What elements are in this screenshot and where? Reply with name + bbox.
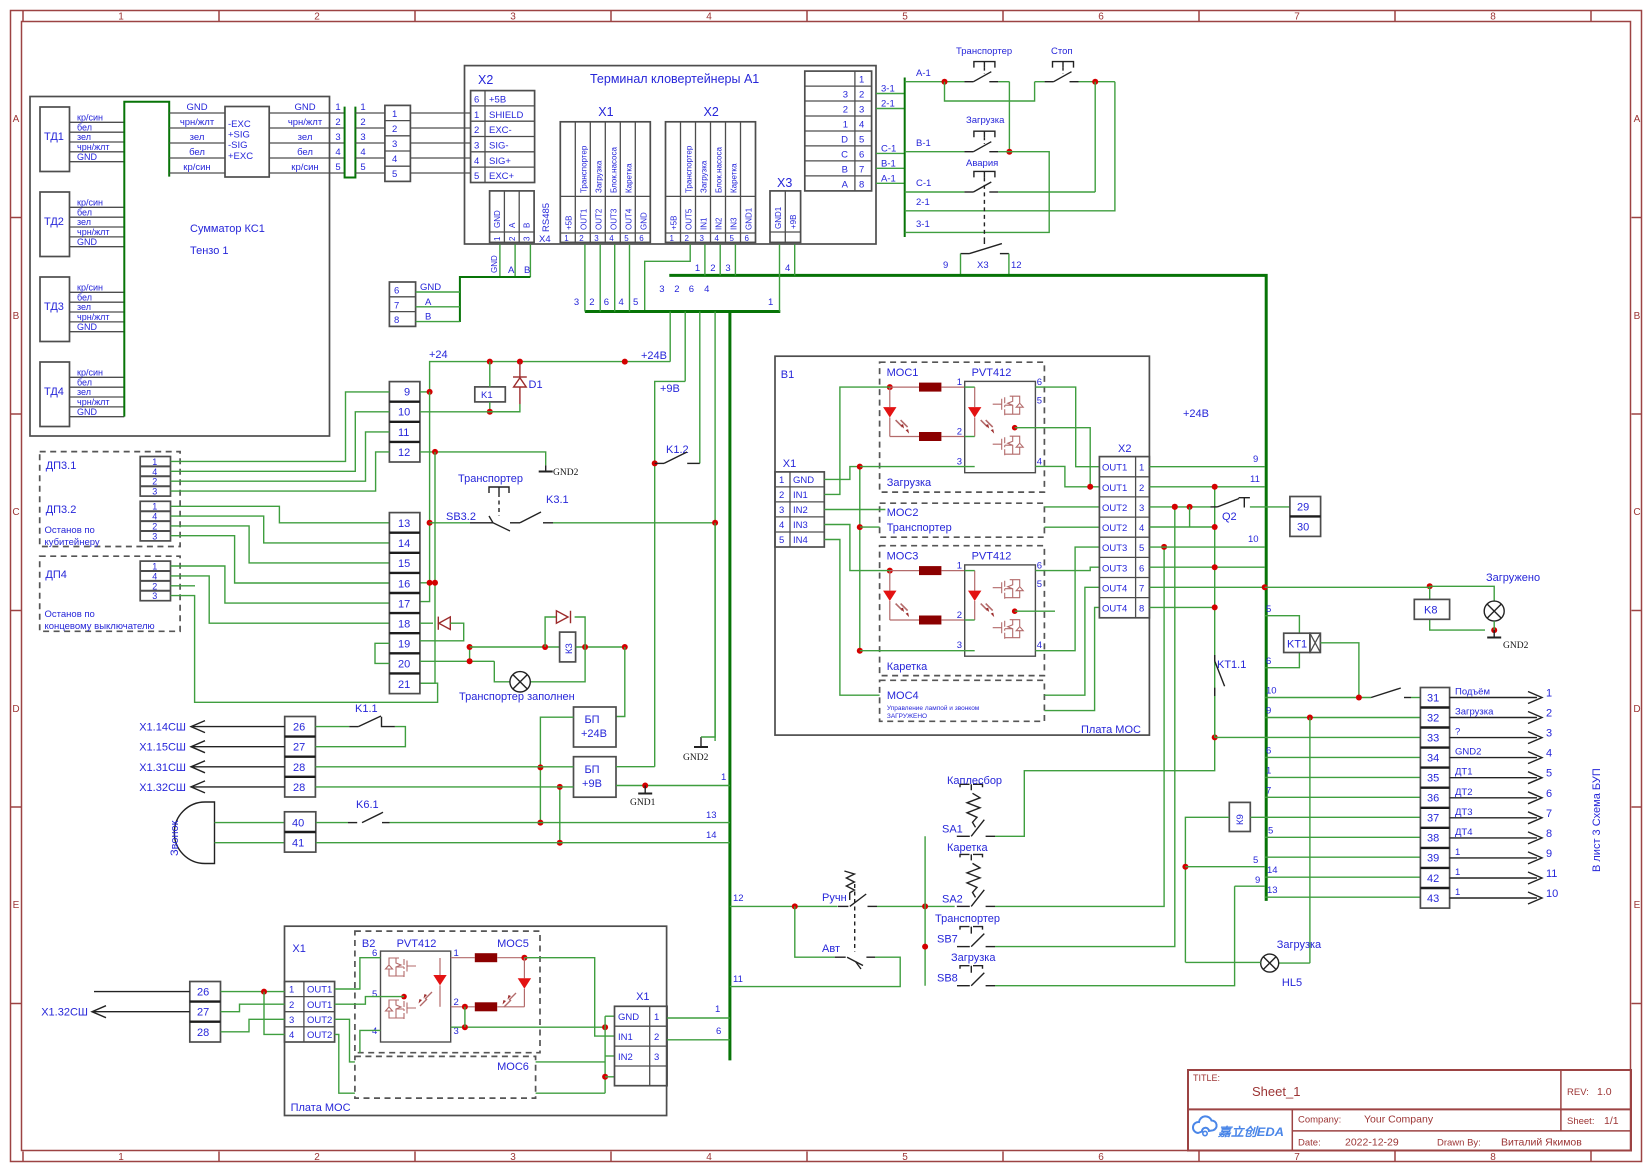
wire harness bus pair xyxy=(345,107,356,178)
wires MOC6 to X1 right xyxy=(536,1056,615,1093)
+24 net down to БП+24В xyxy=(616,647,625,717)
svg-text:Транспортер: Транспортер xyxy=(685,145,694,193)
svg-text:3: 3 xyxy=(700,234,705,243)
svg-text:6: 6 xyxy=(474,95,479,106)
svg-text:5: 5 xyxy=(730,234,735,243)
switch SA1 xyxy=(41,356,1603,1115)
svg-text:?: ? xyxy=(1455,727,1460,738)
switch Q2 xyxy=(1149,498,1290,527)
svg-text:1: 1 xyxy=(152,502,157,512)
ground GND2 mid xyxy=(683,523,715,763)
svg-text:6: 6 xyxy=(1098,12,1104,23)
svg-text:OUT1: OUT1 xyxy=(307,1000,332,1011)
svg-text:1: 1 xyxy=(118,1152,124,1163)
svg-text:-SIG: -SIG xyxy=(228,140,248,151)
connector 26-28 (bottom) xyxy=(190,982,221,1043)
svg-text:Управление лампой и звонком: Управление лампой и звонком xyxy=(887,704,980,712)
svg-text:15: 15 xyxy=(398,558,410,570)
svg-text:OUT1: OUT1 xyxy=(579,208,588,230)
svg-text:OUT4: OUT4 xyxy=(1102,604,1127,615)
svg-text:3: 3 xyxy=(335,132,340,143)
svg-text:3: 3 xyxy=(289,1015,294,1026)
svg-text:14: 14 xyxy=(398,538,410,550)
ground GND2 (near 12) xyxy=(539,465,579,478)
svg-text:11: 11 xyxy=(1546,868,1557,880)
svg-text:SB3.2: SB3.2 xyxy=(446,511,476,523)
svg-text:6: 6 xyxy=(1266,656,1271,667)
connector 29-30 xyxy=(1290,497,1321,537)
table X2 (B1 outputs) xyxy=(1099,443,1149,618)
svg-text:ЗАГРУЖЕНО: ЗАГРУЖЕНО xyxy=(887,713,927,720)
+24 vertical feed x=429.6 xyxy=(420,392,430,602)
wires X2 table down to bus xyxy=(695,244,795,275)
svg-text:1: 1 xyxy=(715,1004,720,1015)
svg-text:1: 1 xyxy=(289,985,294,996)
svg-text:6: 6 xyxy=(604,297,609,308)
svg-text:12: 12 xyxy=(733,893,744,904)
svg-text:Загрузка: Загрузка xyxy=(1277,939,1322,951)
svg-text:2: 2 xyxy=(289,1000,294,1011)
svg-text:бел: бел xyxy=(77,122,92,132)
power supply БП+9В xyxy=(574,757,617,798)
svg-text:K8: K8 xyxy=(1424,605,1437,617)
svg-text:4: 4 xyxy=(152,571,157,581)
arrows X1.xxСШ xyxy=(139,721,284,794)
svg-text:1: 1 xyxy=(392,109,397,120)
svg-text:5: 5 xyxy=(902,12,908,23)
svg-text:Транспортер: Транспортер xyxy=(935,913,1000,925)
svg-text:2: 2 xyxy=(957,427,962,438)
svg-text:GND2: GND2 xyxy=(553,468,579,478)
svg-text:10: 10 xyxy=(1266,686,1277,697)
svg-text:МОС1: МОС1 xyxy=(887,367,919,379)
svg-text:2: 2 xyxy=(859,90,864,101)
svg-text:2: 2 xyxy=(360,117,365,128)
svg-text:2: 2 xyxy=(779,490,784,501)
svg-text:Терминал кловертейнеры А1: Терминал кловертейнеры А1 xyxy=(590,72,759,86)
svg-text:9: 9 xyxy=(1253,454,1258,465)
wires bus2 drops with labels xyxy=(659,284,715,737)
svg-text:OUT1: OUT1 xyxy=(1102,483,1127,494)
svg-text:6: 6 xyxy=(1546,788,1552,800)
svg-text:2: 2 xyxy=(1546,708,1552,720)
wire 14 row to 42 xyxy=(1265,865,1421,877)
svg-text:5: 5 xyxy=(1546,768,1552,780)
wires MOC4 outputs xyxy=(1044,587,1099,710)
svg-text:28: 28 xyxy=(293,762,305,774)
svg-text:X1.32СШ: X1.32СШ xyxy=(41,1007,88,1019)
svg-text:1: 1 xyxy=(360,102,365,113)
svg-text:Drawn By:: Drawn By: xyxy=(1437,1138,1481,1149)
svg-text:IN2: IN2 xyxy=(793,505,808,516)
svg-text:32: 32 xyxy=(1427,712,1439,724)
svg-text:K1.2: K1.2 xyxy=(666,444,689,456)
svg-text:7: 7 xyxy=(859,164,864,175)
svg-text:+SIG: +SIG xyxy=(228,130,250,141)
svg-text:ДТ3: ДТ3 xyxy=(1455,807,1473,818)
svg-text:13: 13 xyxy=(1267,885,1278,896)
svg-text:SA2: SA2 xyxy=(942,893,963,905)
svg-text:9: 9 xyxy=(1266,706,1271,717)
svg-text:1: 1 xyxy=(1455,847,1460,858)
svg-text:1: 1 xyxy=(493,236,502,241)
svg-text:ДТ1: ДТ1 xyxy=(1455,767,1473,778)
wire Стоп output down to 2-1 row xyxy=(905,82,1115,211)
svg-text:зел: зел xyxy=(77,387,91,397)
svg-text:2: 2 xyxy=(152,477,157,487)
svg-text:2: 2 xyxy=(957,610,962,621)
svg-text:26: 26 xyxy=(293,722,305,734)
svg-text:REV:: REV: xyxy=(1567,1087,1589,1098)
svg-text:6: 6 xyxy=(859,149,864,160)
svg-text:5: 5 xyxy=(624,234,629,243)
svg-text:6: 6 xyxy=(1266,745,1271,756)
svg-text:GND: GND xyxy=(793,475,814,486)
svg-text:Каплесбор: Каплесбор xyxy=(947,775,1002,787)
wire 6 row to 34 xyxy=(1265,745,1421,757)
svg-text:концевому выключателю: концевому выключателю xyxy=(45,621,155,632)
svg-text:1: 1 xyxy=(695,263,700,274)
svg-text:Тензо 1: Тензо 1 xyxy=(190,245,229,257)
svg-text:28: 28 xyxy=(293,782,305,794)
terminal table X4 RS485 xyxy=(490,191,552,245)
connector ДП3.1 pins xyxy=(140,457,170,497)
wires X1 table down to bus2 xyxy=(574,244,630,311)
svg-text:7: 7 xyxy=(1139,584,1144,595)
svg-text:+5В: +5В xyxy=(564,216,573,230)
svg-text:X1: X1 xyxy=(292,943,305,955)
svg-text:Транспортер заполнен: Транспортер заполнен xyxy=(459,691,575,703)
svg-text:K1: K1 xyxy=(481,390,493,401)
wire БП9 right output to +9В net xyxy=(616,766,655,768)
svg-text:A: A xyxy=(1634,114,1641,125)
svg-text:Плата МОС: Плата МОС xyxy=(1081,724,1141,736)
svg-text:1: 1 xyxy=(843,120,848,131)
svg-text:чрн/жлт: чрн/жлт xyxy=(77,142,110,152)
wires X1 inputs to MOC blocks xyxy=(824,387,890,695)
svg-text:1: 1 xyxy=(1266,765,1271,776)
svg-text:2: 2 xyxy=(474,125,479,136)
resistors MOC5 xyxy=(451,953,528,1011)
svg-text:4: 4 xyxy=(1037,640,1042,651)
svg-text:Транспортер: Транспортер xyxy=(956,46,1012,57)
svg-text:5: 5 xyxy=(902,1152,908,1163)
connector ТД3 xyxy=(40,277,124,342)
svg-text:IN1: IN1 xyxy=(618,1032,633,1043)
svg-text:11: 11 xyxy=(1250,474,1260,485)
svg-text:GND1: GND1 xyxy=(630,798,656,808)
svg-text:1: 1 xyxy=(152,457,157,467)
wire БП9 output row 1 xyxy=(616,772,730,789)
svg-text:2: 2 xyxy=(654,1032,659,1043)
svg-text:6: 6 xyxy=(1098,1152,1104,1163)
svg-text:5: 5 xyxy=(360,162,365,173)
svg-text:бел: бел xyxy=(297,147,313,158)
svg-text:IN1: IN1 xyxy=(700,217,709,230)
wire 38 row from trunk xyxy=(1265,826,1421,838)
svg-text:Авт: Авт xyxy=(822,943,840,955)
relay coil KT1 xyxy=(1265,604,1359,698)
svg-text:Каретка: Каретка xyxy=(730,163,739,193)
svg-text:К3: К3 xyxy=(564,643,575,654)
wire БП24 input from left xyxy=(540,717,573,822)
wire row 12 from trunk xyxy=(730,893,838,909)
svg-text:ТД3: ТД3 xyxy=(44,301,64,313)
svg-text:6: 6 xyxy=(716,1026,721,1037)
net +9В jog xyxy=(655,381,686,766)
svg-text:26: 26 xyxy=(197,987,209,999)
svg-text:2: 2 xyxy=(589,297,594,308)
svg-text:7: 7 xyxy=(394,300,399,311)
svg-text:X3: X3 xyxy=(777,176,792,190)
svg-text:3: 3 xyxy=(594,234,599,243)
svg-text:Останов по: Останов по xyxy=(45,525,95,536)
svg-text:кр/син: кр/син xyxy=(77,198,103,208)
svg-text:бел: бел xyxy=(77,377,92,387)
vertical link OUT- rows x=1214.7 xyxy=(1212,484,1218,741)
svg-text:7: 7 xyxy=(1294,12,1300,23)
svg-text:3: 3 xyxy=(654,1052,659,1063)
block МОС4 xyxy=(880,680,1045,721)
svg-text:30: 30 xyxy=(1297,522,1309,534)
connector strip 13-21 xyxy=(389,513,420,694)
switch on row 10->31 xyxy=(1265,686,1421,701)
svg-text:12: 12 xyxy=(1011,260,1022,271)
svg-text:2: 2 xyxy=(335,117,340,128)
svg-text:OUT3: OUT3 xyxy=(1102,563,1127,574)
connector ДП4 pins xyxy=(140,561,170,601)
wires ДП3.2 to 13-16 xyxy=(171,506,390,583)
svg-text:X1: X1 xyxy=(783,458,796,470)
svg-text:1: 1 xyxy=(335,102,340,113)
svg-text:2: 2 xyxy=(508,236,517,241)
svg-text:Подъём: Подъём xyxy=(1455,687,1490,698)
terminal table X2 xyxy=(666,105,756,243)
svg-text:4: 4 xyxy=(289,1030,294,1041)
svg-text:4: 4 xyxy=(706,12,712,23)
svg-text:1/1: 1/1 xyxy=(1604,1115,1619,1127)
wire Загрузка net vertical xyxy=(857,464,975,654)
svg-text:ДП4: ДП4 xyxy=(45,569,66,581)
svg-text:зел: зел xyxy=(77,302,91,312)
svg-text:1: 1 xyxy=(721,772,726,783)
svg-text:GND: GND xyxy=(639,212,648,230)
svg-text:Транспортер: Транспортер xyxy=(579,145,588,193)
summator KC1 block A xyxy=(30,97,330,437)
svg-text:ТД1: ТД1 xyxy=(44,131,64,143)
svg-text:X2: X2 xyxy=(478,73,493,87)
svg-text:3: 3 xyxy=(152,591,157,601)
svg-text:GND: GND xyxy=(294,102,315,113)
svg-text:IN2: IN2 xyxy=(715,217,724,230)
svg-text:18: 18 xyxy=(398,619,410,631)
svg-text:Загрузка: Загрузка xyxy=(887,477,932,489)
svg-text:A: A xyxy=(508,265,515,276)
svg-text:IN1: IN1 xyxy=(793,490,808,501)
svg-text:3: 3 xyxy=(859,105,864,116)
svg-text:5: 5 xyxy=(1266,604,1271,615)
svg-text:X1.31СШ: X1.31СШ xyxy=(139,762,186,774)
terminal table out 8 rows xyxy=(805,71,872,191)
svg-text:D1: D1 xyxy=(529,379,543,391)
svg-text:3: 3 xyxy=(779,505,784,516)
svg-text:2-1: 2-1 xyxy=(881,99,895,110)
svg-text:1: 1 xyxy=(118,12,124,23)
svg-text:Q2: Q2 xyxy=(1222,511,1237,523)
svg-text:чрн/жлт: чрн/жлт xyxy=(180,117,215,128)
svg-text:GND: GND xyxy=(490,255,499,273)
svg-text:D: D xyxy=(1633,704,1640,715)
svg-text:2: 2 xyxy=(314,12,320,23)
svg-text:X1.15СШ: X1.15СШ xyxy=(139,742,186,754)
svg-text:2: 2 xyxy=(685,234,690,243)
svg-text:1: 1 xyxy=(474,110,479,121)
wire MOC5 out to IN1 xyxy=(524,958,614,1036)
svg-text:кр/син: кр/син xyxy=(77,283,103,293)
lamp Загружено + K8 xyxy=(1262,572,1540,651)
svg-text:зел: зел xyxy=(190,132,205,143)
svg-text:36: 36 xyxy=(1427,793,1439,805)
svg-text:Your Company: Your Company xyxy=(1364,1114,1434,1126)
svg-text:4: 4 xyxy=(704,284,709,295)
svg-text:A: A xyxy=(842,179,849,190)
svg-text:3: 3 xyxy=(659,284,664,295)
wire 28 row#1 to БП area xyxy=(315,766,573,768)
svg-text:HL5: HL5 xyxy=(1282,977,1302,989)
svg-text:X1: X1 xyxy=(598,105,613,119)
amplifier EXC box xyxy=(225,107,269,178)
svg-text:16: 16 xyxy=(398,578,410,590)
svg-text:6: 6 xyxy=(745,234,750,243)
connector 26-28 СШ xyxy=(285,717,316,798)
svg-text:1.0: 1.0 xyxy=(1597,1086,1612,1098)
svg-text:X3: X3 xyxy=(977,260,989,271)
svg-text:2: 2 xyxy=(1139,483,1144,494)
ground GND1 xyxy=(630,786,656,809)
svg-text:28: 28 xyxy=(197,1027,209,1039)
table X1 left (B2 outputs) xyxy=(285,982,335,1043)
svg-text:13: 13 xyxy=(706,810,717,821)
svg-text:OUT2: OUT2 xyxy=(307,1030,332,1041)
svg-text:4: 4 xyxy=(619,297,624,308)
svg-text:19: 19 xyxy=(398,639,410,651)
svg-text:5: 5 xyxy=(335,162,340,173)
svg-text:GND: GND xyxy=(77,152,98,162)
svg-text:+24В: +24В xyxy=(1183,408,1209,420)
svg-text:37: 37 xyxy=(1427,813,1439,825)
svg-text:A-1: A-1 xyxy=(881,173,896,184)
wire 28 row#2 xyxy=(315,786,573,788)
svg-text:GND: GND xyxy=(493,210,502,228)
svg-text:OUT1: OUT1 xyxy=(307,985,332,996)
svg-text:A: A xyxy=(508,222,517,228)
terminal box A1 xyxy=(465,66,877,244)
svg-text:Загрузка: Загрузка xyxy=(966,115,1005,126)
relay collector bus vertical xyxy=(904,78,906,238)
svg-text:A: A xyxy=(13,114,20,125)
svg-text:8: 8 xyxy=(1490,12,1496,23)
svg-text:+24В: +24В xyxy=(641,350,667,362)
svg-text:6: 6 xyxy=(394,286,399,297)
switch K1.1 bridging 26-27 xyxy=(315,703,405,747)
svg-text:34: 34 xyxy=(1427,752,1439,764)
svg-text:7: 7 xyxy=(1266,785,1271,796)
svg-text:Плата МОС: Плата МОС xyxy=(291,1102,351,1114)
svg-text:4: 4 xyxy=(335,147,340,158)
connector strip 31-43 xyxy=(1420,688,1449,909)
wires terminal to relay bus xyxy=(876,84,905,185)
svg-text:ДП3.2: ДП3.2 xyxy=(46,504,77,516)
svg-text:Sheet_1: Sheet_1 xyxy=(1252,1084,1300,1099)
svg-text:OUT5: OUT5 xyxy=(685,208,694,230)
svg-text:3: 3 xyxy=(474,141,479,152)
block ДП4 xyxy=(40,556,180,632)
svg-text:Загрузка: Загрузка xyxy=(594,160,603,193)
svg-text:Date:: Date: xyxy=(1298,1138,1321,1149)
wire X3 GND1 down to bus2 xyxy=(779,244,781,311)
svg-text:5: 5 xyxy=(1253,855,1258,866)
svg-text:+24В: +24В xyxy=(581,728,607,740)
svg-text:40: 40 xyxy=(292,818,304,830)
svg-text:C: C xyxy=(12,507,19,518)
svg-text:C: C xyxy=(841,149,848,160)
svg-text:4: 4 xyxy=(372,1026,377,1037)
svg-text:3-1: 3-1 xyxy=(916,219,930,230)
switch K6.1 on 40 row xyxy=(316,799,730,823)
relay coil K9 xyxy=(1182,802,1420,962)
LED MOC5 right xyxy=(503,958,532,1007)
optocoupler PVT412 (mirrored) xyxy=(372,948,459,1042)
svg-text:3: 3 xyxy=(957,640,962,651)
svg-text:1: 1 xyxy=(1546,688,1552,700)
terminal table X3 xyxy=(770,176,801,242)
connector ДП3.2 pins xyxy=(140,501,170,541)
svg-text:ДТ4: ДТ4 xyxy=(1455,827,1473,838)
svg-text:3: 3 xyxy=(843,90,848,101)
switch Загрузка xyxy=(905,115,1049,232)
svg-text:чрн/жлт: чрн/жлт xyxy=(288,117,323,128)
switch Авт (auto) xyxy=(730,906,900,986)
svg-text:3: 3 xyxy=(574,297,579,308)
switch SA2 xyxy=(41,356,1603,1115)
switch Транспортер (top) xyxy=(905,46,1012,85)
svg-text:3: 3 xyxy=(152,531,157,541)
svg-text:2022-12-29: 2022-12-29 xyxy=(1345,1137,1399,1149)
svg-text:11: 11 xyxy=(733,974,743,985)
svg-text:X2: X2 xyxy=(1118,443,1131,455)
svg-text:9: 9 xyxy=(1546,848,1552,860)
svg-text:8: 8 xyxy=(394,315,399,326)
wire 19-20 left link xyxy=(375,643,389,663)
svg-text:GND2: GND2 xyxy=(683,753,709,763)
svg-text:Останов по: Останов по xyxy=(45,609,95,620)
svg-text:5: 5 xyxy=(633,297,638,308)
connector ТД4 xyxy=(40,362,124,427)
svg-text:К9: К9 xyxy=(1235,814,1246,825)
svg-text:кр/син: кр/син xyxy=(291,162,318,173)
wires ДП3.1 to 9-12 xyxy=(171,392,390,491)
svg-text:12: 12 xyxy=(398,447,410,459)
svg-text:1: 1 xyxy=(654,1012,659,1023)
wire ? row 33 xyxy=(1215,736,1421,738)
wire Стоп junction down to C-1 row xyxy=(1094,82,1096,192)
svg-text:TITLE:: TITLE: xyxy=(1193,1073,1220,1083)
svg-text:Каретка: Каретка xyxy=(887,661,928,673)
svg-text:5: 5 xyxy=(392,169,397,180)
bus X1-OUT horizontal xyxy=(585,310,780,313)
svg-text:Загружено: Загружено xyxy=(1486,572,1540,584)
svg-text:8: 8 xyxy=(1490,1152,1496,1163)
